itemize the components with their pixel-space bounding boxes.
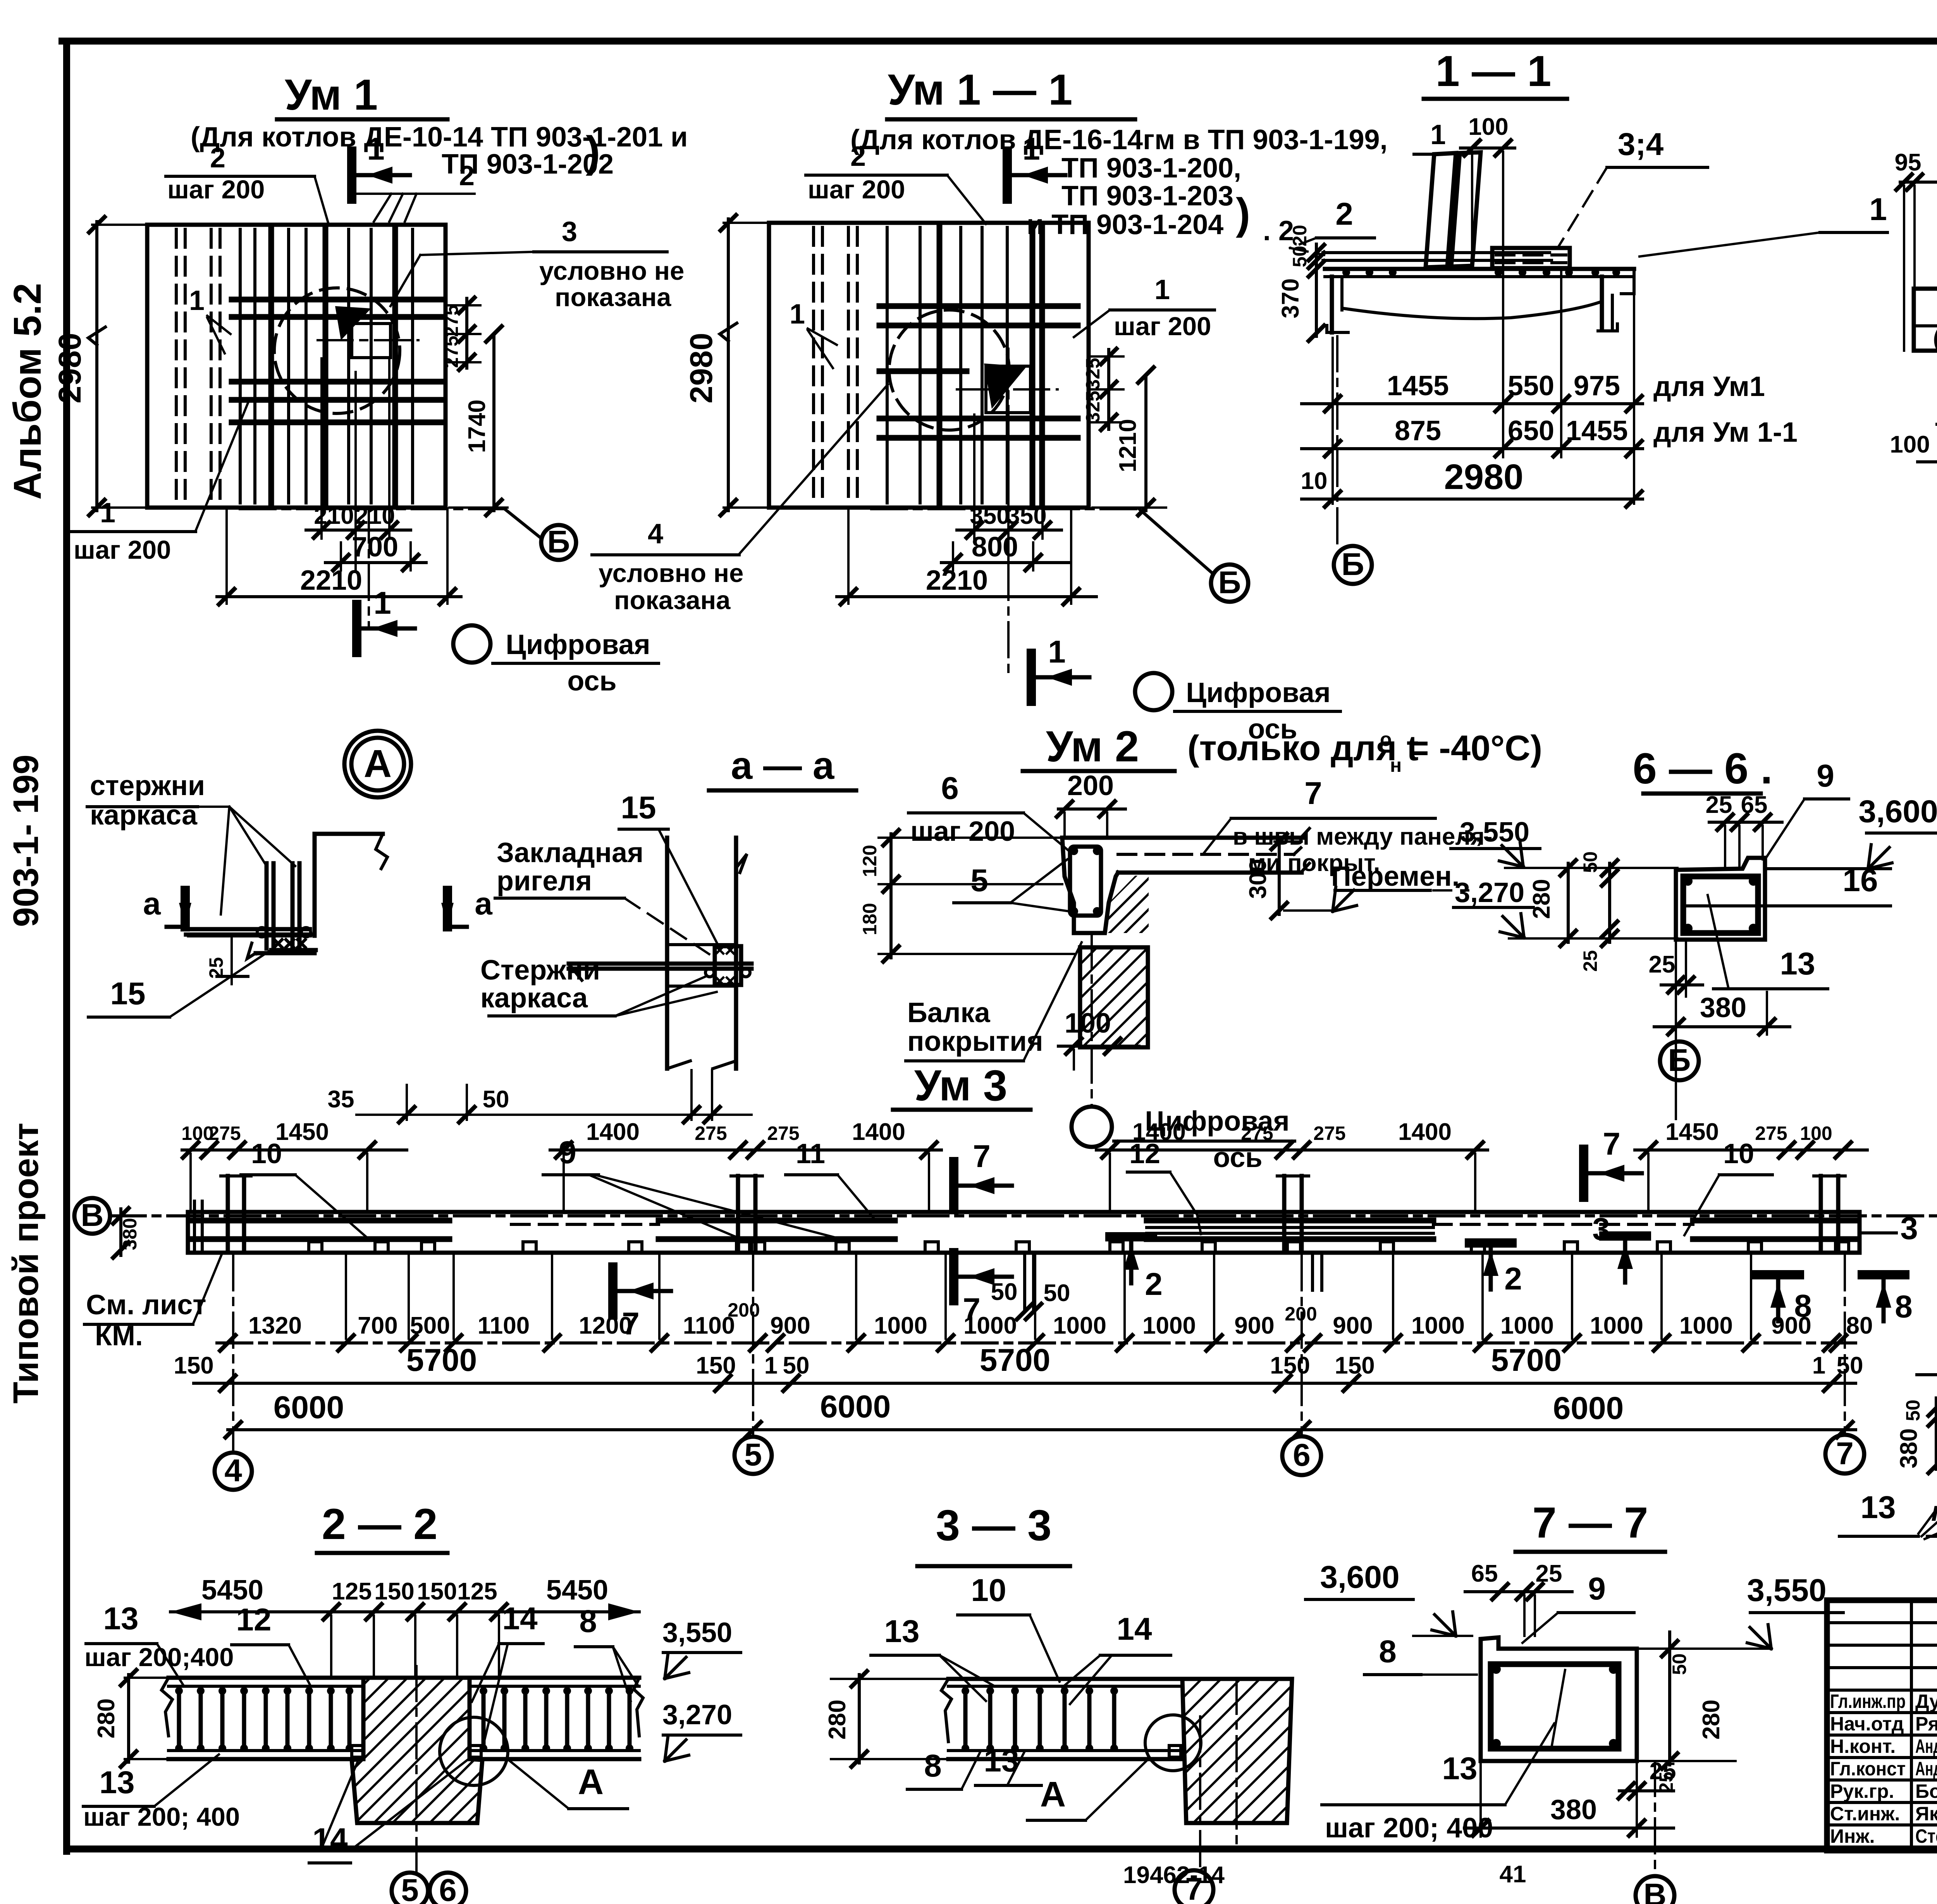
svg-text:10: 10 <box>1301 468 1328 494</box>
svg-text:25: 25 <box>1536 1560 1562 1587</box>
svg-text:65: 65 <box>1471 1560 1498 1587</box>
svg-text:25: 25 <box>1579 950 1601 972</box>
svg-text:5700: 5700 <box>980 1343 1050 1378</box>
svg-text:13: 13 <box>884 1614 919 1649</box>
section a-a: label zakladnaya rigelya <box>495 837 714 957</box>
svg-text:50: 50 <box>991 1279 1018 1305</box>
svg-text:1000: 1000 <box>1053 1312 1106 1339</box>
svg-text:5450: 5450 <box>201 1575 263 1606</box>
view Um2: dim 200 top <box>1057 770 1125 837</box>
section 7-7: title <box>1516 1498 1665 1552</box>
view Um2: label 6 shag 200 <box>908 771 1068 850</box>
view Um1: label 1 (interior leader) <box>189 285 231 353</box>
view Um1-1: section cut mark 1 (top) <box>1007 131 1065 199</box>
svg-text:900: 900 <box>770 1312 810 1339</box>
svg-text:35: 35 <box>328 1086 354 1113</box>
svg-text:700: 700 <box>358 1312 397 1339</box>
view Um2: title <box>1023 722 1542 776</box>
detail A: section marks a-a <box>143 886 493 927</box>
svg-text:325: 325 <box>1082 391 1104 423</box>
svg-text:10: 10 <box>251 1138 282 1169</box>
section 7-7: elevation 3,550 <box>1637 1573 1843 1649</box>
section 7-7: label 8 <box>1364 1634 1477 1675</box>
svg-text:1000: 1000 <box>1590 1312 1643 1339</box>
svg-text:50: 50 <box>1669 1653 1690 1675</box>
section 2-2: cage stirrups left <box>175 1687 353 1752</box>
view Um1: opening with filled corner mark <box>335 306 390 358</box>
svg-text:А: А <box>364 742 392 785</box>
svg-text:Перемен.: Перемен. <box>1331 861 1460 892</box>
svg-text:каркаса: каркаса <box>480 983 588 1014</box>
section 1-1: left dims 20 50 370 <box>1277 225 1324 341</box>
svg-text:А: А <box>578 1762 604 1802</box>
view Um1: section cut mark 1 (top) <box>352 131 410 199</box>
detail A: label 15 <box>88 949 273 1017</box>
view Um1-1: label 1 (interior) <box>790 299 837 368</box>
svg-text:Гл.инж.пр: Гл.инж.пр <box>1830 1691 1906 1712</box>
svg-text:650: 650 <box>1508 415 1554 446</box>
section 1-1: roof slab profile <box>1323 253 1634 332</box>
svg-text:Ум 2: Ум 2 <box>1046 722 1139 771</box>
view Um2: label balka pokrytiya <box>906 942 1082 1061</box>
svg-text:а: а <box>143 886 161 921</box>
svg-text:1: 1 <box>790 299 805 330</box>
svg-text:1450: 1450 <box>275 1119 329 1145</box>
view Um1: left dim 2980 <box>52 217 149 515</box>
svg-text:1: 1 <box>1048 634 1066 670</box>
svg-text:380: 380 <box>1550 1794 1597 1825</box>
svg-text:7 — 7: 7 — 7 <box>1533 1498 1648 1547</box>
svg-text:1: 1 <box>367 131 385 167</box>
svg-text:показана: показана <box>614 586 731 615</box>
section 2-2: cage stirrups right <box>480 1687 633 1752</box>
svg-text:150: 150 <box>1270 1352 1310 1379</box>
svg-text:7: 7 <box>1836 1436 1854 1471</box>
svg-text:ось: ось <box>567 666 616 697</box>
svg-text:3,600: 3,600 <box>1320 1560 1399 1595</box>
view Um3: up-arrow marks 2 3 8 <box>1110 1211 1918 1324</box>
section 6-6: title <box>1633 744 1772 794</box>
section a-a: label 15 <box>619 790 720 949</box>
view Um2: beam tee section <box>1062 828 1309 933</box>
svg-text:Н.конт.: Н.конт. <box>1830 1735 1896 1757</box>
svg-text:1000: 1000 <box>1411 1312 1465 1339</box>
section 8-8: labels 13 p.a.A <box>1839 1468 1937 1539</box>
svg-text:8: 8 <box>924 1748 942 1783</box>
section 6-6: left dims 50 280 25 <box>1528 851 1617 972</box>
svg-text:6000: 6000 <box>1553 1391 1624 1426</box>
section 7-7: axis circle V <box>1636 1761 1674 1904</box>
svg-text:3,550: 3,550 <box>1747 1573 1826 1608</box>
svg-text:1: 1 <box>189 285 205 316</box>
svg-text:Инж.: Инж. <box>1830 1825 1875 1847</box>
section 1-1: label 3;4 <box>1558 127 1708 247</box>
svg-text:125: 125 <box>457 1578 497 1605</box>
svg-text:1450: 1450 <box>1665 1119 1719 1145</box>
svg-text:1400: 1400 <box>852 1119 905 1145</box>
view Um1-1: label 1 shag 200 (right) <box>1074 274 1214 341</box>
detail A: label sterzhni karkasa <box>87 770 295 914</box>
svg-text:2980: 2980 <box>1444 457 1524 497</box>
svg-text:2: 2 <box>1504 1261 1522 1296</box>
svg-text:100: 100 <box>1065 1008 1111 1039</box>
svg-text:для Ум 1-1: для Ум 1-1 <box>1653 417 1798 448</box>
svg-text:125: 125 <box>332 1578 372 1605</box>
svg-text:шаг 200; 400: шаг 200; 400 <box>83 1802 240 1832</box>
view Um3: labels 10 9 11 12 10 <box>241 1135 1772 1240</box>
svg-text:Рябуха: Рябуха <box>1915 1713 1937 1735</box>
section 1-1: axis circle B <box>1334 336 1372 584</box>
view Um2: dim 100 <box>1058 1008 1139 1069</box>
svg-text:Гл.конст: Гл.конст <box>1830 1758 1906 1780</box>
svg-text:Стержни: Стержни <box>480 955 600 986</box>
svg-text:шаг 200: шаг 200 <box>167 175 265 204</box>
svg-text:): ) <box>586 127 600 176</box>
view Um3: label Sm.list KM <box>84 1255 222 1351</box>
view Um3: dim chain row 1 <box>217 1255 1873 1351</box>
svg-text:шаг 200: шаг 200 <box>74 535 171 565</box>
svg-text:каркаса: каркаса <box>90 800 198 831</box>
svg-text:1: 1 <box>1430 119 1446 150</box>
svg-text:2: 2 <box>1145 1267 1163 1302</box>
svg-text:Андриевская: Андриевская <box>1915 1735 1937 1757</box>
detail A: corner plate with anchors <box>271 940 316 950</box>
svg-text:(Для котлов ДЕ-10-14 ТП 903-: (Для котлов ДЕ-10-14 ТП 903-1-201 и <box>191 122 688 153</box>
svg-text:1100: 1100 <box>683 1312 735 1339</box>
svg-text:8: 8 <box>1379 1634 1397 1669</box>
view Um1-1: dashed rebar verticals <box>814 227 857 503</box>
svg-text:5: 5 <box>970 863 988 898</box>
svg-text:80: 80 <box>1846 1312 1873 1339</box>
svg-text:280: 280 <box>824 1699 851 1739</box>
view Um4: bottom dims 150 5700 6000 <box>1890 385 1937 477</box>
svg-text:а — а: а — а <box>731 744 835 787</box>
view Um1: plan outline <box>147 225 446 508</box>
svg-text:шаг 200: шаг 200 <box>1114 312 1211 341</box>
section 2-2: labels 13 12 14 8 <box>84 1601 638 1744</box>
svg-text:В: В <box>1643 1877 1666 1904</box>
svg-text:1100: 1100 <box>478 1312 530 1339</box>
svg-text:1: 1 <box>1869 192 1887 227</box>
view Um1: dashed rebar verticals <box>176 229 220 503</box>
section 8-8: labels 8 14 10 <box>1917 1335 1937 1501</box>
view Um3: section marks 7 (upper and lower) <box>613 1126 1642 1341</box>
svg-text:Цифровая: Цифровая <box>506 629 650 660</box>
view Um2: label 5 <box>954 859 1069 911</box>
section 6-6: section outline with nose <box>1676 858 1891 940</box>
svg-text:150: 150 <box>174 1352 213 1379</box>
svg-text:Б: Б <box>547 524 570 559</box>
view Um1: center lines of opening <box>318 298 418 374</box>
svg-text:975: 975 <box>1574 370 1620 401</box>
svg-text:): ) <box>1236 189 1250 238</box>
svg-text:150: 150 <box>1335 1352 1374 1379</box>
svg-text:50: 50 <box>1289 246 1311 267</box>
svg-text:12: 12 <box>1129 1138 1160 1169</box>
svg-text:11: 11 <box>796 1138 825 1169</box>
view Um2: slab lines right <box>1118 848 1301 854</box>
svg-text:1: 1 <box>100 498 115 529</box>
svg-text:14: 14 <box>1116 1611 1152 1647</box>
view Um1-1: label 2 shag 200 <box>806 141 986 224</box>
section 3-3: hatched support right <box>1038 1679 1570 1844</box>
svg-text:показана: показана <box>555 283 671 312</box>
svg-text:10: 10 <box>971 1573 1006 1608</box>
svg-text:3: 3 <box>1900 1211 1918 1246</box>
svg-text:100: 100 <box>1890 431 1930 458</box>
svg-text:150: 150 <box>374 1578 414 1605</box>
left margin vertical stamp texts <box>6 283 49 1403</box>
view Um3: left dim 380 <box>113 1208 141 1258</box>
svg-text:300: 300 <box>1245 859 1271 899</box>
svg-text:1320: 1320 <box>248 1312 302 1339</box>
svg-text:210: 210 <box>355 503 395 529</box>
svg-text:200: 200 <box>1067 770 1114 801</box>
svg-text:380: 380 <box>1700 992 1746 1023</box>
svg-text:2: 2 <box>459 160 475 191</box>
svg-text:280: 280 <box>93 1698 120 1738</box>
svg-text:7: 7 <box>1304 776 1322 811</box>
view Um1-1: rebar verticals <box>887 227 1042 503</box>
svg-text:50: 50 <box>1902 1400 1924 1421</box>
svg-text:500: 500 <box>410 1312 450 1339</box>
svg-text:15: 15 <box>621 790 656 825</box>
svg-text:275: 275 <box>440 305 462 337</box>
svg-text:13: 13 <box>1442 1751 1477 1786</box>
section 6-6: dims 25 65 <box>1706 792 1782 869</box>
svg-text:Закладная: Закладная <box>497 837 643 868</box>
svg-text:стержни: стержни <box>90 770 205 801</box>
svg-text:Цифровая: Цифровая <box>1186 677 1330 708</box>
section 3-3: left dim 280 <box>824 1671 951 1767</box>
svg-text:1200: 1200 <box>579 1312 632 1339</box>
section 2-2: hatched column <box>206 1678 761 1823</box>
view Um1-1: left dim 2980 <box>684 215 771 515</box>
svg-text:95: 95 <box>1895 149 1922 176</box>
view Um1: label 1 shag 200 (bottom-left) <box>72 403 248 565</box>
svg-text:14: 14 <box>502 1601 538 1636</box>
view Um3: embedded tabs along bottom <box>309 1242 1849 1253</box>
svg-text:275: 275 <box>695 1122 727 1144</box>
view Um1: label 2 shag 200 <box>166 143 329 224</box>
view Um3: thick bar groups <box>191 1221 1858 1239</box>
svg-text:1210: 1210 <box>1115 419 1141 472</box>
svg-text:Рук.гр.: Рук.гр. <box>1830 1780 1894 1802</box>
svg-text:380: 380 <box>119 1218 141 1250</box>
detail A: vertical frame bars <box>189 863 311 949</box>
view Um1: title and notes <box>191 71 688 180</box>
view Um1: rebar verticals <box>240 229 413 503</box>
svg-text:20: 20 <box>1289 225 1311 246</box>
svg-text:1455: 1455 <box>1387 370 1449 401</box>
svg-text:Нач.отд: Нач.отд <box>1830 1713 1904 1735</box>
svg-text:9: 9 <box>1588 1571 1606 1606</box>
svg-text:8: 8 <box>1895 1289 1913 1324</box>
svg-text:3,270: 3,270 <box>1455 877 1524 908</box>
view Um1-1: axis line and circle B <box>872 509 1248 602</box>
section 6-6: elevation 3,550 <box>1451 817 1677 868</box>
svg-text:8: 8 <box>579 1604 597 1639</box>
svg-text:1 — 1: 1 — 1 <box>1436 47 1552 95</box>
svg-text:А: А <box>1040 1775 1066 1814</box>
svg-text:Бобрук: Бобрук <box>1915 1780 1937 1802</box>
section 7-7: label 9 <box>1522 1571 1634 1643</box>
section 6-6: elevation 3,270 <box>1454 877 1677 938</box>
svg-text:1000: 1000 <box>1500 1312 1554 1339</box>
section 1-1: embedded channel plate <box>1492 248 1570 268</box>
svg-text:2 — 2: 2 — 2 <box>322 1500 438 1548</box>
svg-text:Андриевская: Андриевская <box>1915 1758 1937 1780</box>
svg-text:900: 900 <box>1771 1312 1811 1339</box>
section 6-6: dims 25 380 below <box>1649 942 1790 1119</box>
view Um1-1: horizontal rebar bars <box>879 306 1078 438</box>
title block: main stamp <box>1827 1600 1937 1851</box>
view Um4: beam elevation outline <box>1914 246 1937 351</box>
view Um1-1: bottom dims 350 350 800 2210 <box>837 415 1096 604</box>
view Um1-1: opening with filled corner mark <box>984 363 1030 413</box>
view Um1: axis line and circle B <box>240 509 576 560</box>
svg-text:370: 370 <box>1277 278 1304 318</box>
view Um1: label 3 uslovno ne pokazana <box>390 216 684 312</box>
section 3-3: title <box>917 1501 1070 1566</box>
svg-text:13: 13 <box>1780 946 1815 981</box>
svg-text:6: 6 <box>439 1873 457 1904</box>
svg-text:25: 25 <box>205 957 227 979</box>
svg-text:1000: 1000 <box>1142 1312 1196 1339</box>
svg-text:условно не: условно не <box>599 559 743 588</box>
view Um2: stirrup in beam <box>1070 847 1101 916</box>
section 1-1: anchor dots <box>1342 269 1620 276</box>
svg-text:Ст.инж.: Ст.инж. <box>1830 1803 1900 1825</box>
svg-text:6: 6 <box>1293 1437 1311 1473</box>
svg-text:1000: 1000 <box>874 1312 927 1339</box>
section 7-7: dims 25 380 <box>1464 1758 1676 1837</box>
section 1-1: label 2 (left) <box>1290 196 1374 255</box>
view Um2: label 7 v shvy <box>1203 776 1493 876</box>
svg-text:Ум 3: Ум 3 <box>914 1061 1007 1110</box>
svg-text:41: 41 <box>1500 1861 1526 1888</box>
svg-text:2210: 2210 <box>926 565 988 596</box>
view Um3: axis circle V and axis line <box>74 1198 1937 1234</box>
svg-text:275: 275 <box>767 1122 799 1144</box>
section 2-2: slab outline <box>162 1678 643 1759</box>
svg-text:25: 25 <box>1650 1758 1676 1785</box>
svg-text:12: 12 <box>236 1602 271 1637</box>
svg-text:Б: Б <box>1668 1043 1691 1078</box>
section 1-1: label 1 (right) <box>1639 192 1887 257</box>
svg-text:100: 100 <box>1800 1122 1832 1144</box>
view Um1: bottom section mark 1 and tsifrovaya os circle <box>357 508 659 697</box>
svg-text:1: 1 <box>1022 131 1040 167</box>
svg-text:Думан: Думан <box>1915 1691 1937 1712</box>
svg-text:180: 180 <box>859 903 881 935</box>
svg-text:2980: 2980 <box>684 333 719 403</box>
svg-text:1000: 1000 <box>1679 1312 1733 1339</box>
view Um1: dashed circle <box>274 288 400 413</box>
svg-text:а: а <box>475 886 493 921</box>
svg-text:2: 2 <box>210 143 225 174</box>
section 3-3: slab and cage <box>941 1679 1200 1759</box>
detail A: concrete corner outline <box>186 834 387 959</box>
svg-text:50: 50 <box>1579 851 1601 873</box>
view Um3: vertical anchor bars above beam <box>194 1176 1845 1251</box>
svg-text:50: 50 <box>1837 1352 1863 1379</box>
svg-text:150: 150 <box>417 1578 457 1605</box>
svg-text:13: 13 <box>1860 1490 1896 1525</box>
section 6-6: elevation 3,600 <box>1767 794 1937 869</box>
svg-text:1400: 1400 <box>586 1119 640 1145</box>
svg-text:1: 1 <box>373 585 391 621</box>
svg-text:350: 350 <box>970 503 1010 529</box>
section a-a: column outline with breaks <box>667 838 747 1069</box>
svg-text:50: 50 <box>483 1086 509 1113</box>
svg-text:для Ум1: для Ум1 <box>1653 371 1765 402</box>
section 8-8: left dims 50 380 <box>1896 1398 1937 1473</box>
section 7-7: elevation 3,600 <box>1306 1560 1472 1636</box>
svg-text:шаг 200: шаг 200 <box>808 175 905 204</box>
bottom margin small texts <box>1123 1855 1937 1889</box>
svg-text:5: 5 <box>744 1437 762 1472</box>
svg-text:Ум 1: Ум 1 <box>285 71 378 119</box>
svg-text:9: 9 <box>559 1135 576 1170</box>
section 2-2: detail circle and label A <box>440 1717 628 1809</box>
section 2-2: title <box>317 1500 447 1553</box>
svg-text:шаг 200: шаг 200 <box>910 816 1015 847</box>
svg-text:25: 25 <box>1706 792 1732 818</box>
svg-text:покрытия: покрытия <box>907 1026 1043 1057</box>
svg-text:9: 9 <box>1817 758 1834 794</box>
section 7-7: label 13 shag 200 400 <box>1322 1723 1554 1844</box>
svg-text:1: 1 <box>1154 274 1170 305</box>
svg-text:13: 13 <box>103 1601 138 1636</box>
svg-text:50: 50 <box>783 1352 810 1379</box>
svg-text:7: 7 <box>1185 1871 1203 1904</box>
svg-text:ось: ось <box>1213 1142 1262 1173</box>
svg-text:550: 550 <box>1508 370 1554 401</box>
svg-text:5: 5 <box>401 1873 419 1904</box>
view Um1: label 2 (right leaders) <box>356 160 475 222</box>
svg-text:275: 275 <box>1755 1122 1787 1144</box>
view Um3: upper dim chains <box>181 1119 1867 1213</box>
section 1-1: dim rows 1455 550 975 / 875 650 1455 / 2980 <box>1301 271 1798 507</box>
svg-text:120: 120 <box>859 845 881 877</box>
svg-text:Б: Б <box>1342 547 1364 582</box>
section 7-7: dims 65 25 <box>1465 1560 1572 1636</box>
view Um3: title <box>893 1061 1030 1110</box>
section 2-2: label 14 bottom <box>309 1757 470 1863</box>
view Um3: dim chain row 3 (6000) <box>225 1389 1856 1437</box>
svg-text:1: 1 <box>764 1352 778 1379</box>
svg-text:275: 275 <box>208 1122 241 1144</box>
svg-text:100: 100 <box>1468 114 1508 140</box>
section 7-7: stirrup <box>1491 1664 1619 1749</box>
view Um1-1: title and notes <box>850 65 1388 246</box>
svg-text:200: 200 <box>728 1299 760 1321</box>
svg-text:1000: 1000 <box>963 1312 1017 1339</box>
section 7-7: section outline with nose <box>1481 1637 1637 1761</box>
svg-text:В: В <box>81 1198 103 1233</box>
svg-text:275: 275 <box>440 336 462 368</box>
svg-text:1400: 1400 <box>1398 1119 1452 1145</box>
svg-text:15: 15 <box>110 976 145 1011</box>
section 1-1: dim 100 above <box>1460 114 1515 267</box>
svg-text:1455: 1455 <box>1566 415 1628 446</box>
svg-text:800: 800 <box>972 532 1018 563</box>
section 2-2: left dim 280 <box>93 1670 170 1767</box>
svg-text:3,550: 3,550 <box>662 1617 732 1648</box>
svg-text:ТП 903-1-200,: ТП 903-1-200, <box>1061 153 1241 184</box>
svg-text:Альбом 5.2: Альбом 5.2 <box>6 283 49 500</box>
